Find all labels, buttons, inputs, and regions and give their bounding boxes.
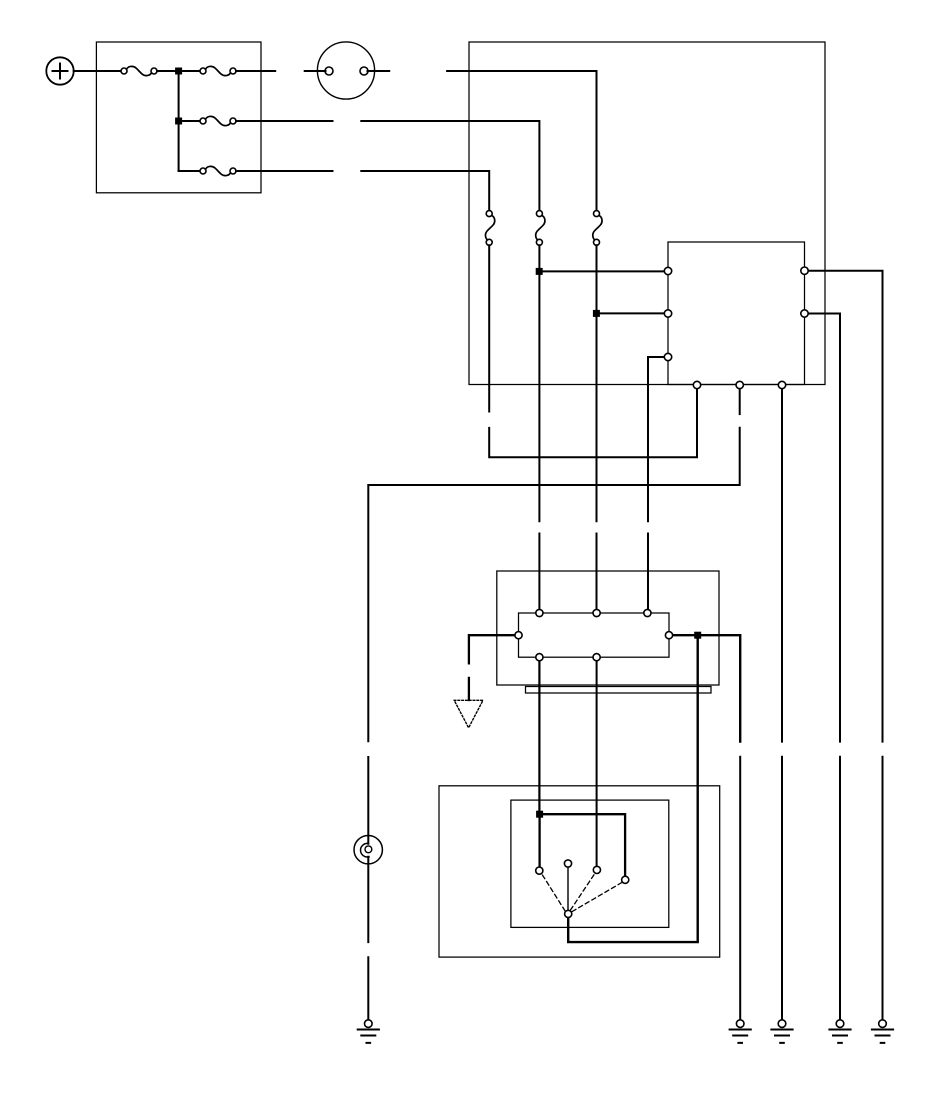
wire FL2 down segment 1 [538,245,540,521]
relay pin 1 [664,267,671,274]
U1 pin top 2 [593,609,600,616]
wire row2 to fusible link 2 [361,121,539,211]
relay pin 5 [801,310,808,317]
wire relay pin 7 to lamp segment 2 [368,428,739,742]
connector bar [526,687,712,694]
connector C1 [317,42,374,99]
U1 pin bottom 1 [536,654,543,661]
switch dashed contact to position 4 [572,883,621,912]
wire U1 right pin to ground G1 segment 2 [739,757,741,1020]
ground arrow triangle [454,700,483,728]
switch inner box S1 [511,800,669,927]
junction dot E [694,632,701,639]
wire relay pin 3 down segment 1 [648,357,668,521]
battery positive terminal B+ [46,57,73,84]
wire into connector left [305,70,326,72]
fusible link FL2 [536,211,545,246]
wire lamp to ground G0 segment 2 [367,957,369,1020]
wire FL3 down segment 2 [596,534,598,614]
wire F3 output [236,120,333,122]
junction dot C [536,268,543,275]
fuse F2 [200,66,236,75]
switch outer box [439,786,720,957]
wire F2 output [236,70,275,72]
U1 pin right [665,632,672,639]
wire U1 bottom pin 2 to switch position 3 [596,657,598,870]
junction block J/B [469,42,825,385]
switch position 3 [593,866,600,873]
wire FL1 down to bottom terminal 1 [489,385,697,457]
wire relay pin 5 to ground G3 segment 1 [805,314,841,742]
wire U1 left pin to arrow segment 1 [469,635,519,663]
wire relay pin 8 to ground G2 segment 1 [781,385,783,742]
junction dot A [175,68,182,75]
junction dot D [593,310,600,317]
wire F4 output [236,170,333,172]
relay block outer box [497,571,719,685]
ground G3 [829,1020,850,1043]
wire row3 to fusible link 1 [361,171,489,211]
wire relay pin 3 down segment 2 [647,534,649,614]
ground G2 [771,1020,792,1043]
switch position 4 [622,876,629,883]
wire relay pin 4 to ground G4 segment 2 [882,757,884,1020]
wire out of connector right [368,70,390,72]
switch dashed contact to position 3 [571,874,595,910]
wire junction F to position 4 [540,814,626,880]
wire junction D to relay pin 2 [596,312,668,314]
wire U1 left pin to arrow segment 2 [468,678,470,700]
relay pin 6 [693,381,700,388]
relay pin 3 [664,353,671,360]
relay pin 7 [736,381,743,388]
junction dot B [175,118,182,125]
wire row1 to fusible link 3 [447,71,596,211]
relay pin 2 [664,310,671,317]
wire U1 right pin to ground G1 segment 1 [669,635,740,741]
fuse F1 [121,66,157,75]
U1 pin top 1 [536,609,543,616]
wire battery to fuse box [74,70,122,72]
wire lamp to ground G0 segment 1 [367,857,369,942]
switch contact arm solid [567,867,569,911]
wire junction column to F4 [179,170,201,172]
relay K1 [668,242,805,385]
wire relay pin 4 to ground G4 segment 1 [805,271,883,742]
switch common [565,910,572,917]
wire junction B to F3 [179,120,201,122]
fusible link FL3 [593,211,602,246]
wire FL1 down segment 1 [488,245,490,411]
wire relay pin 8 to ground G2 segment 2 [781,757,783,1020]
fusible link FL1 [485,211,494,246]
wire F1 to junction [157,70,201,72]
fuse F4 [200,166,236,175]
U1 pin top 3 [644,609,651,616]
U1 pin left [515,632,522,639]
relay pin 8 [778,381,785,388]
ground G1 [730,1020,751,1043]
ground G0 [358,1020,379,1043]
wire FL2 down segment 2 [538,534,540,614]
fuse box [96,42,261,193]
wire junction A down [178,71,180,171]
wire relay pin 7 to lamp segment 3 [367,757,369,844]
wire junction C to relay pin 1 [539,270,668,272]
junction dot F [536,811,543,818]
wire FL3 down segment 1 [596,245,598,521]
lamp L1 [354,836,382,864]
U1 pin bottom 2 [593,654,600,661]
switch position 2 [564,860,571,867]
relay pin 4 [801,267,808,274]
wire relay pin 5 to ground G3 segment 2 [839,757,841,1020]
relay block inner unit U1 [519,613,670,657]
wire junction F to position 1 [538,814,540,870]
wire U1 bottom pin 1 to switch [538,657,540,814]
ground G4 [872,1020,893,1043]
wire junction E to switch common [568,635,698,942]
wire relay pin 7 down segment 1 [739,385,741,414]
fuse F3 [200,116,236,125]
switch dashed contact to position 1 [542,874,565,911]
switch position 1 [536,867,543,874]
